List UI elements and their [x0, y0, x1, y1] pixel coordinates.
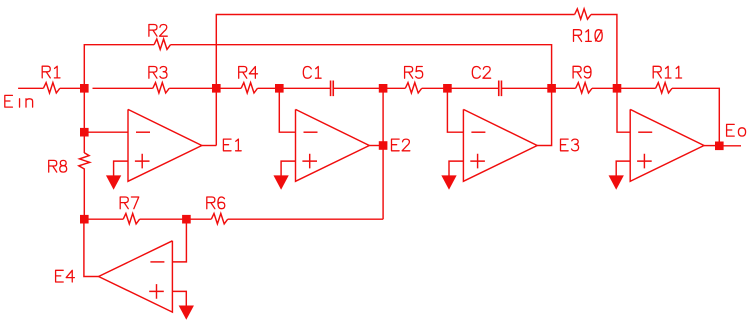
wire R4 to node C	[258, 87, 280, 89]
wire C2 to node G	[502, 87, 552, 89]
wire node B to R4	[216, 87, 241, 89]
ground at E4 non-inverting input	[179, 306, 194, 320]
wire node G to R9	[552, 87, 576, 89]
wire R2 to node G (down)	[171, 45, 552, 89]
op-amp U4 non-inverting pin mark	[637, 154, 652, 169]
wire E1 output to node B vertical	[202, 145, 217, 147]
ground at E3 non-inverting input	[441, 175, 456, 189]
wire E3 output up to node G	[537, 88, 551, 145]
wire E1 non-inverting input to ground	[114, 161, 128, 176]
wire R3 to node B	[169, 87, 216, 89]
wire node F down to E3 inverting input	[447, 88, 463, 132]
resistor R8	[49, 153, 90, 172]
wire E2 output to node E	[369, 145, 383, 147]
op-amp E4 inverting pin mark	[150, 261, 164, 263]
wire node K down to E4 inverting input	[172, 219, 186, 262]
wire node A up to R2	[84, 45, 154, 89]
wire R6 to node E branch (up to E2 output)	[228, 218, 383, 220]
wire R9 to node H	[592, 87, 617, 89]
wire R11 to output node (down right side)	[672, 88, 719, 145]
junction node C (R4/C1/E2 inv branch)	[275, 84, 284, 93]
op-amp E1 inverting pin mark	[136, 131, 150, 133]
junction node H (R9/R10/R11/U4 inv branch)	[613, 84, 622, 93]
wire node D down through node E to bottom row	[382, 88, 384, 219]
resistor R2	[149, 25, 171, 50]
wire R10 to node H (down)	[591, 15, 617, 89]
op-amp E2 body	[296, 109, 410, 181]
resistor R3	[149, 67, 169, 94]
op-amp E2 non-inverting pin mark	[302, 154, 317, 169]
resistor R1	[42, 66, 60, 93]
wire node F to C2	[447, 87, 498, 89]
op-amp U4 inverting pin mark	[638, 131, 652, 133]
junction node F (R5/C2/E3 inv branch)	[443, 84, 452, 93]
wire R7 to node K	[140, 218, 187, 220]
wire node A down to E1 inverting node	[83, 88, 85, 132]
wire E2 non-inverting input to ground	[281, 161, 295, 176]
wire node H to R11	[617, 87, 656, 89]
wire node C down to E2 inverting input	[279, 88, 295, 132]
junction node G (C2/R2/E3 out/R9)	[547, 84, 556, 93]
junction node A (Ein/R1/R2/R3/E1 inv branch)	[80, 84, 89, 93]
wire E4 output up to node J	[84, 219, 99, 276]
capacitor C2	[472, 67, 501, 97]
op-amp U4 body	[630, 109, 704, 181]
resistor R10	[574, 9, 603, 42]
wire node C to C1	[279, 87, 330, 89]
ground at E1 non-inverting input	[106, 175, 121, 189]
junction node D (C1/R5/E2 out branch)	[379, 84, 388, 93]
wire E3 non-inverting input to ground	[449, 161, 463, 176]
wire C1 to node D	[333, 87, 383, 89]
resistor R7	[120, 197, 139, 224]
wire node H down to U4 inverting input	[617, 88, 630, 132]
node Eo output lead	[719, 124, 745, 145]
wire E1 inverting node to E1	[84, 131, 128, 133]
wire node K to R6	[186, 218, 211, 220]
junction output node Eo	[715, 142, 724, 151]
op-amp E4 non-inverting pin mark	[149, 284, 164, 299]
junction node J (R7/R8/E4 out)	[80, 215, 89, 224]
wire U4 output to output node	[704, 145, 719, 147]
op-amp E2 inverting pin mark	[304, 131, 318, 133]
resistor R4	[239, 67, 258, 94]
wire node J to R7	[84, 218, 123, 220]
resistor R5	[405, 67, 423, 94]
op-amp E3 body	[463, 109, 578, 181]
wire E4 non-inverting input to ground	[172, 291, 186, 306]
node Ein input lead	[18, 87, 43, 89]
junction E1 inverting node	[80, 128, 89, 137]
junction node B (R3/R4/E1 out)	[212, 84, 221, 93]
op-amp E4 body	[56, 241, 173, 312]
resistor R6	[207, 197, 228, 224]
op-amp E3 non-inverting pin mark	[470, 154, 485, 169]
wire E1 inv node down to R8	[83, 132, 85, 153]
op-amp E3 inverting pin mark	[471, 131, 485, 133]
junction node K (R7/R6/E4 inv branch)	[182, 215, 191, 224]
wire node B up and top line to R10	[216, 15, 574, 146]
op-amp E1 non-inverting pin mark	[135, 154, 150, 169]
wire node D to R5	[383, 87, 405, 89]
resistor R11	[653, 66, 681, 93]
junction node E (E2 output)	[379, 141, 388, 150]
resistor R9	[573, 66, 592, 93]
node Ein label	[5, 95, 33, 107]
ground at E2 non-inverting input	[273, 175, 288, 189]
wire R1 to node A	[60, 87, 85, 89]
op-amp E1 body	[128, 109, 241, 181]
wire R5 to node F	[422, 87, 448, 89]
wire node A to R3	[93, 87, 153, 89]
capacitor C1	[303, 67, 333, 97]
ground at U4 non-inverting input	[609, 175, 624, 189]
wire U4 non-inverting input to ground	[616, 161, 630, 176]
wire R8 down to node J	[83, 169, 85, 219]
